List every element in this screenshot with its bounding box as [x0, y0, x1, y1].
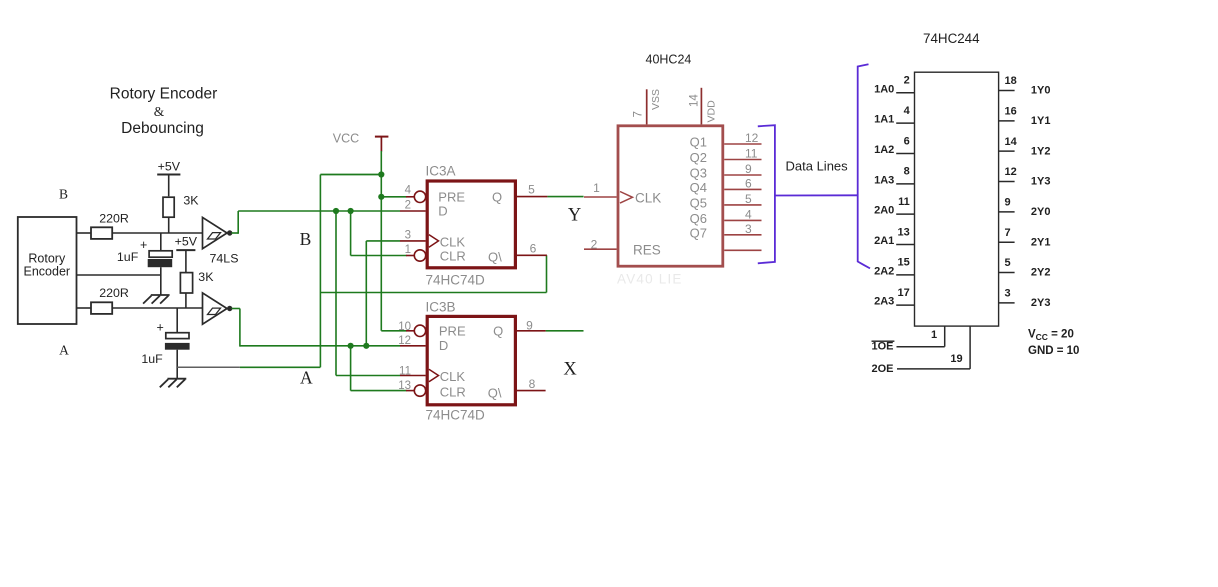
svg-text:5: 5: [1005, 257, 1011, 269]
svg-text:Q\: Q\: [488, 250, 502, 265]
svg-text:2Y3: 2Y3: [1031, 297, 1051, 309]
svg-text:GND = 10: GND = 10: [1028, 345, 1079, 357]
svg-text:B: B: [300, 229, 312, 249]
svg-text:1uF: 1uF: [117, 250, 139, 264]
svg-text:AV40 LIE: AV40 LIE: [617, 272, 683, 287]
svg-text:5: 5: [528, 183, 535, 197]
svg-text:&: &: [154, 104, 165, 119]
svg-text:Q: Q: [493, 324, 503, 339]
svg-text:4: 4: [405, 185, 412, 197]
svg-text:B: B: [59, 186, 68, 201]
svg-text:2Y0: 2Y0: [1031, 206, 1051, 218]
svg-text:1Y0: 1Y0: [1031, 85, 1051, 97]
svg-text:16: 16: [1005, 106, 1017, 118]
svg-text:VDD: VDD: [706, 100, 718, 123]
svg-text:1A2: 1A2: [874, 144, 894, 156]
svg-text:1A0: 1A0: [874, 83, 894, 95]
svg-text:8: 8: [904, 166, 910, 178]
svg-text:11: 11: [745, 147, 758, 161]
svg-text:2: 2: [904, 75, 910, 87]
svg-text:VSS: VSS: [650, 89, 662, 110]
svg-text:2A3: 2A3: [874, 296, 894, 308]
svg-text:PRE: PRE: [438, 190, 465, 205]
svg-text:2Y1: 2Y1: [1031, 236, 1051, 248]
svg-text:Debouncing: Debouncing: [121, 120, 204, 137]
svg-text:11: 11: [898, 196, 910, 208]
svg-text:2A2: 2A2: [874, 265, 894, 277]
svg-text:9: 9: [745, 162, 752, 176]
svg-text:2OE: 2OE: [872, 363, 894, 375]
svg-text:A: A: [59, 343, 69, 358]
svg-text:Q5: Q5: [690, 196, 707, 211]
svg-text:74HC74D: 74HC74D: [426, 408, 486, 423]
svg-text:1uF: 1uF: [141, 352, 163, 366]
svg-text:CLK: CLK: [440, 369, 466, 384]
svg-text:+5V: +5V: [158, 160, 181, 174]
svg-text:8: 8: [529, 377, 536, 391]
svg-text:14: 14: [1005, 136, 1018, 148]
svg-text:D: D: [439, 338, 448, 353]
svg-text:6: 6: [745, 177, 752, 191]
svg-text:IC3B: IC3B: [426, 300, 456, 315]
svg-text:RES: RES: [633, 242, 661, 257]
svg-text:1Y1: 1Y1: [1031, 115, 1051, 127]
svg-text:Q: Q: [492, 190, 502, 205]
svg-text:2: 2: [591, 238, 598, 252]
svg-text:220R: 220R: [99, 286, 129, 300]
svg-text:18: 18: [1005, 75, 1017, 87]
svg-text:3K: 3K: [183, 194, 199, 208]
svg-text:Y: Y: [568, 205, 581, 225]
svg-text:10: 10: [398, 321, 411, 333]
svg-text:Rotory Encoder: Rotory Encoder: [110, 86, 218, 103]
svg-text:6: 6: [904, 135, 910, 147]
svg-text:1: 1: [593, 181, 600, 195]
svg-text:2A0: 2A0: [874, 205, 894, 217]
svg-text:17: 17: [898, 287, 910, 299]
svg-text:12: 12: [398, 335, 411, 347]
svg-text:13: 13: [398, 380, 411, 392]
svg-text:+: +: [140, 238, 147, 252]
svg-text:9: 9: [526, 318, 533, 332]
svg-text:A: A: [300, 368, 313, 388]
svg-text:40HC24: 40HC24: [646, 52, 692, 66]
svg-text:CLK: CLK: [440, 235, 466, 250]
svg-text:1Y2: 1Y2: [1031, 145, 1051, 157]
svg-text:Q4: Q4: [690, 180, 707, 195]
svg-text:220R: 220R: [99, 212, 129, 226]
svg-text:9: 9: [1005, 197, 1011, 209]
svg-text:CLK: CLK: [635, 191, 661, 206]
svg-text:PRE: PRE: [439, 324, 466, 339]
svg-text:2Y2: 2Y2: [1031, 267, 1051, 279]
svg-text:3K: 3K: [198, 270, 214, 284]
svg-text:Q2: Q2: [690, 150, 707, 165]
svg-text:D: D: [438, 204, 447, 219]
svg-text:VCC: VCC: [333, 131, 359, 145]
svg-text:Q\: Q\: [488, 386, 502, 401]
svg-text:74LS: 74LS: [210, 252, 239, 266]
svg-text:VCC = 20: VCC = 20: [1028, 329, 1074, 342]
svg-text:12: 12: [1005, 166, 1017, 178]
svg-text:CLR: CLR: [440, 249, 466, 264]
svg-text:12: 12: [745, 131, 759, 145]
svg-text:1: 1: [931, 329, 937, 341]
svg-text:6: 6: [530, 241, 537, 255]
svg-text:3: 3: [745, 222, 752, 236]
svg-text:+: +: [157, 320, 164, 334]
svg-text:7: 7: [633, 111, 645, 117]
svg-text:5: 5: [745, 192, 752, 206]
svg-text:+5V: +5V: [175, 234, 198, 248]
svg-text:19: 19: [950, 353, 962, 365]
svg-text:Data Lines: Data Lines: [786, 159, 849, 174]
svg-text:Q6: Q6: [690, 211, 707, 226]
svg-text:15: 15: [898, 257, 910, 269]
svg-text:1Y3: 1Y3: [1031, 176, 1051, 188]
svg-text:4: 4: [745, 208, 752, 222]
svg-text:14: 14: [689, 94, 701, 107]
svg-text:4: 4: [904, 105, 911, 117]
svg-text:Encoder: Encoder: [24, 265, 71, 279]
svg-text:Q1: Q1: [690, 135, 707, 150]
svg-text:1A1: 1A1: [874, 114, 894, 126]
svg-text:3: 3: [1005, 288, 1011, 300]
svg-text:7: 7: [1005, 227, 1011, 239]
svg-text:1: 1: [405, 244, 411, 256]
svg-text:1A3: 1A3: [874, 174, 894, 186]
svg-text:13: 13: [898, 226, 910, 238]
svg-text:2: 2: [405, 200, 411, 212]
svg-text:X: X: [563, 359, 577, 379]
svg-text:74HC244: 74HC244: [923, 31, 980, 46]
svg-text:3: 3: [405, 230, 411, 242]
svg-text:2A1: 2A1: [874, 235, 894, 247]
svg-text:Q7: Q7: [690, 225, 707, 240]
svg-text:IC3A: IC3A: [426, 164, 456, 179]
svg-text:1OE: 1OE: [872, 340, 894, 352]
svg-text:CLR: CLR: [440, 384, 466, 399]
svg-text:Rotory: Rotory: [28, 251, 66, 265]
svg-text:74HC74D: 74HC74D: [426, 273, 486, 288]
svg-text:Q3: Q3: [690, 166, 707, 181]
svg-text:11: 11: [399, 365, 411, 377]
